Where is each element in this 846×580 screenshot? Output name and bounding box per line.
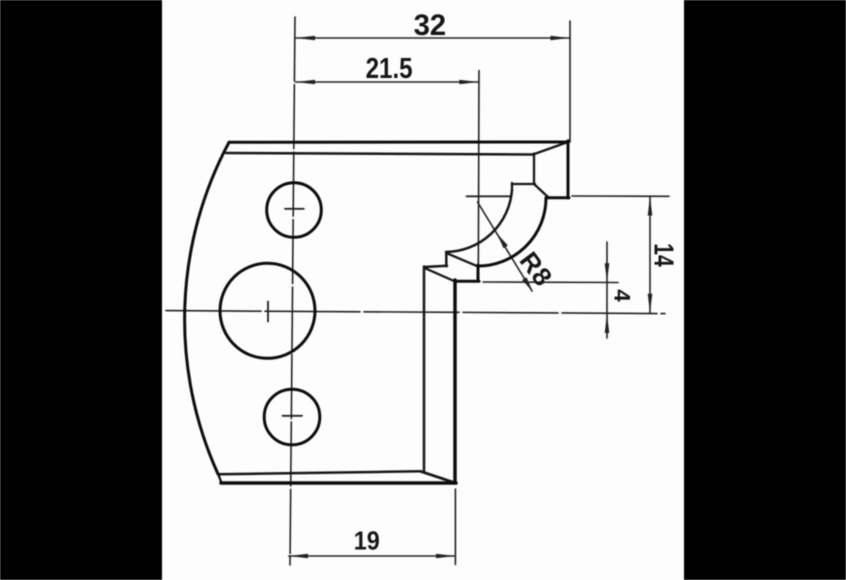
svg-text:21.5: 21.5 bbox=[366, 53, 413, 85]
svg-text:19: 19 bbox=[354, 525, 380, 555]
svg-text:32: 32 bbox=[414, 9, 447, 42]
svg-text:14: 14 bbox=[648, 243, 679, 267]
svg-text:4: 4 bbox=[610, 289, 635, 302]
